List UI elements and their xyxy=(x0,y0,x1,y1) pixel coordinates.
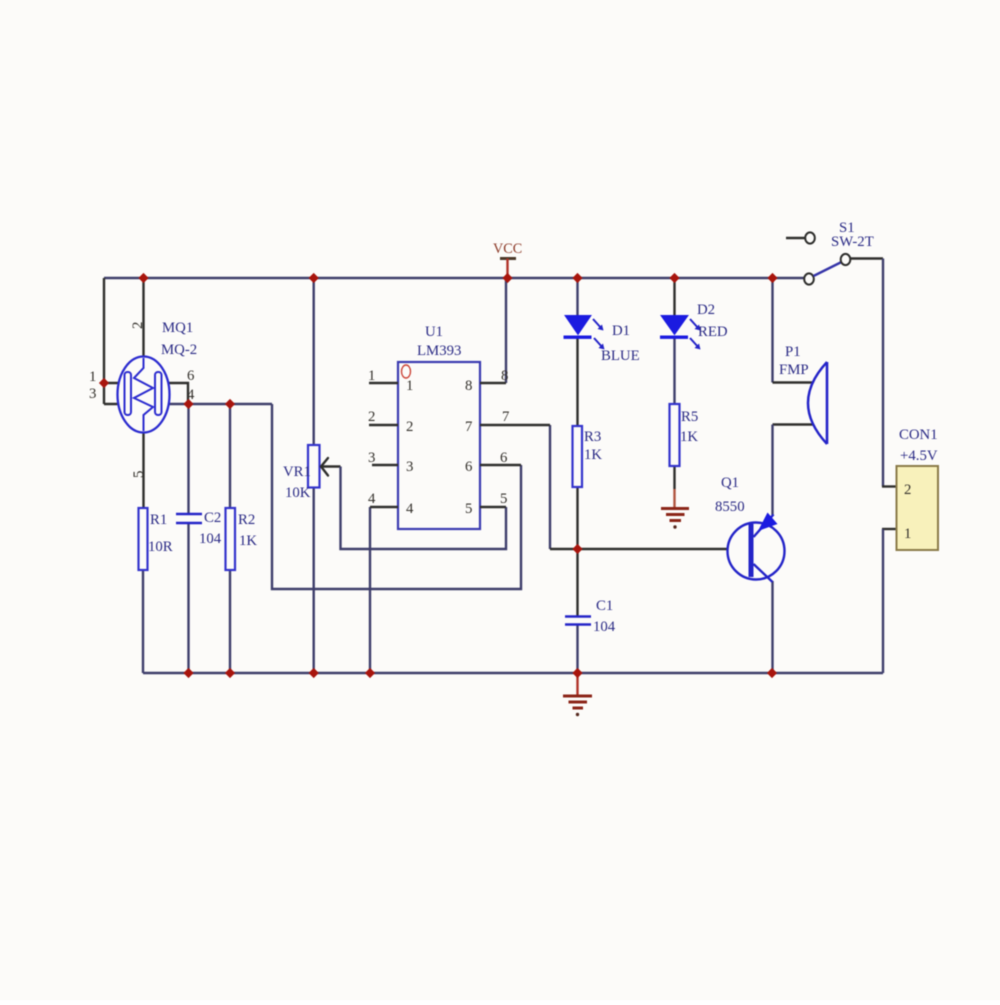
switch S1 SW-2T xyxy=(786,232,850,284)
LED D1 xyxy=(564,316,605,350)
wire R5 to ground symbol xyxy=(673,466,675,489)
svg-text:3: 3 xyxy=(89,386,96,402)
svg-text:1: 1 xyxy=(406,378,413,394)
svg-text:2: 2 xyxy=(130,322,146,329)
wire U1 pin7 to Q1 base xyxy=(549,425,551,549)
ground symbol under C1 xyxy=(563,675,592,716)
LED D2 xyxy=(660,316,701,350)
junction node Q1 collector rail xyxy=(767,668,777,678)
svg-text:U1: U1 xyxy=(425,324,443,340)
svg-text:P1: P1 xyxy=(785,344,801,360)
svg-text:5: 5 xyxy=(465,501,472,517)
resistor R3 xyxy=(573,426,583,487)
gas sensor MQ1 body xyxy=(118,357,170,433)
U1 pin 2 stub xyxy=(369,424,398,426)
junction node C1 ground rail xyxy=(572,668,582,678)
junction node MQ pins 1-3 xyxy=(99,378,109,388)
wire U1 pin4 to ground rail xyxy=(369,507,371,673)
svg-text:1: 1 xyxy=(368,368,375,384)
junction node VR1 on rail xyxy=(309,273,319,283)
wire CON1 pin1 to ground rail xyxy=(882,529,884,673)
svg-text:1K: 1K xyxy=(680,429,698,445)
svg-text:4: 4 xyxy=(368,491,376,507)
svg-text:+4.5V: +4.5V xyxy=(900,448,938,464)
svg-text:3: 3 xyxy=(406,459,413,475)
svg-text:5: 5 xyxy=(131,471,147,478)
wire speaker top terminal xyxy=(773,381,814,383)
svg-text:FMP: FMP xyxy=(779,362,809,378)
wire rail to speaker branch xyxy=(771,278,773,383)
svg-text:C2: C2 xyxy=(204,510,221,526)
power flag VCC xyxy=(493,241,522,277)
svg-text:C1: C1 xyxy=(596,598,613,614)
svg-text:1K: 1K xyxy=(239,533,257,549)
wire bottom ground rail xyxy=(143,672,883,674)
wire C2 stems xyxy=(187,404,189,673)
svg-text:2: 2 xyxy=(406,419,413,435)
svg-text:6: 6 xyxy=(187,368,194,384)
wire VR1 stems xyxy=(313,278,315,673)
wire R2 stems xyxy=(229,404,231,673)
wire Q1 collector to ground rail xyxy=(771,581,773,673)
svg-text:104: 104 xyxy=(199,531,222,547)
wire VR1 wiper to U1 pin5 xyxy=(321,465,341,467)
svg-text:8550: 8550 xyxy=(715,499,745,515)
svg-text:1: 1 xyxy=(904,526,911,542)
svg-text:6: 6 xyxy=(465,459,472,475)
svg-text:R3: R3 xyxy=(584,429,601,445)
svg-text:7: 7 xyxy=(465,419,472,435)
svg-text:10R: 10R xyxy=(148,539,173,555)
junction node D2 on rail xyxy=(669,273,679,283)
svg-text:D1: D1 xyxy=(612,323,630,339)
svg-text:VR1: VR1 xyxy=(283,464,311,480)
svg-text:8: 8 xyxy=(501,368,508,384)
svg-text:2: 2 xyxy=(904,482,911,498)
capacitor C1 xyxy=(565,617,591,625)
potentiometer VR1 xyxy=(308,445,320,488)
junction node D1 on rail xyxy=(572,273,582,283)
svg-text:SW-2T: SW-2T xyxy=(831,234,874,250)
wire MQ1 pin 5 to R1 xyxy=(142,431,144,509)
junction node R2 top xyxy=(225,399,235,409)
U1 pin 5 stub xyxy=(480,506,506,508)
wire MQ1 pin 2 drop from rail xyxy=(142,278,144,358)
junction node C2 top xyxy=(183,399,193,409)
wire R1 bottom to rail corner xyxy=(142,570,144,673)
resistor R5 xyxy=(670,404,680,466)
svg-text:R5: R5 xyxy=(681,409,698,425)
svg-text:7: 7 xyxy=(502,409,509,425)
wire MQ1 pin 4 horizontal to node xyxy=(161,403,272,405)
svg-text:LM393: LM393 xyxy=(417,343,461,359)
U1 pin 6 stub xyxy=(480,464,521,466)
resistor R2 xyxy=(226,508,236,570)
wire D2 cathode to R5 xyxy=(673,338,675,404)
junction node R2 bottom rail xyxy=(225,668,235,678)
svg-text:1: 1 xyxy=(89,369,96,385)
op-amp U1 LM393 body xyxy=(398,362,480,529)
U1 pin 1 stub xyxy=(369,382,398,384)
svg-text:8: 8 xyxy=(465,378,472,394)
wire D1 cathode to R3 xyxy=(576,338,578,426)
svg-text:BLUE: BLUE xyxy=(601,348,640,364)
wire R3 to base node xyxy=(576,487,578,549)
junction node VCC on rail xyxy=(502,273,512,283)
junction node VR1 bottom rail xyxy=(309,668,319,678)
svg-text:D2: D2 xyxy=(697,302,715,318)
capacitor C2 xyxy=(176,514,202,523)
svg-text:1K: 1K xyxy=(584,447,602,463)
svg-text:VCC: VCC xyxy=(493,241,522,257)
resistor R1 xyxy=(139,508,148,570)
junction node C2 bottom rail xyxy=(183,668,193,678)
U1 pin 3 stub xyxy=(372,464,398,466)
svg-text:3: 3 xyxy=(368,450,375,466)
svg-text:CON1: CON1 xyxy=(899,427,938,443)
wire CON1 pin2 stub xyxy=(882,485,897,487)
wire CON1 pin1 stub xyxy=(882,528,897,530)
svg-text:2: 2 xyxy=(368,409,375,425)
svg-text:R2: R2 xyxy=(238,512,255,528)
junction node MQ pin2 on rail xyxy=(138,273,148,283)
svg-text:MQ1: MQ1 xyxy=(162,320,193,336)
wire base node to C1 xyxy=(576,549,578,616)
svg-text:R1: R1 xyxy=(150,512,167,528)
wire D1 anode drop xyxy=(576,278,578,316)
svg-text:4: 4 xyxy=(406,501,414,517)
svg-text:6: 6 xyxy=(500,450,507,466)
wire left branch to MQ1 pins 1,3 xyxy=(104,278,126,404)
svg-text:RED: RED xyxy=(698,324,728,340)
svg-text:10K: 10K xyxy=(285,485,311,501)
wire speaker to Q1 emitter xyxy=(771,425,773,516)
svg-text:MQ-2: MQ-2 xyxy=(161,342,197,358)
U1 pin 8 stub xyxy=(480,382,506,384)
svg-text:Q1: Q1 xyxy=(721,475,739,491)
junction node speaker branch on rail xyxy=(767,273,777,283)
wire C1 to ground rail xyxy=(576,625,578,673)
speaker P1 xyxy=(808,362,827,444)
connector CON1 xyxy=(897,466,939,550)
U1 pin 7 stub xyxy=(480,424,550,426)
transistor Q1 8550 xyxy=(728,513,785,583)
wire top VCC rail xyxy=(104,277,805,279)
ground symbol under R5 xyxy=(661,509,689,521)
svg-text:104: 104 xyxy=(593,619,616,635)
wire node to U1 pin6 loop xyxy=(272,404,521,589)
wire D2 anode drop xyxy=(673,278,675,316)
VR1 wiper arrow xyxy=(321,458,328,476)
svg-text:5: 5 xyxy=(500,491,507,507)
wire MQ1 pin 6 jog xyxy=(161,383,188,404)
junction node U1 pin4 bottom rail xyxy=(365,668,375,678)
U1 pin 4 stub xyxy=(370,506,398,508)
wire U1 pin8 to VCC rail xyxy=(505,278,507,383)
junction node Q1 base / R3 / C1 xyxy=(572,544,582,554)
wire speaker bottom terminal xyxy=(773,423,814,425)
wire switch to CON1 pin 2 xyxy=(850,257,883,259)
U1 pin-1 marker circle xyxy=(402,365,411,378)
